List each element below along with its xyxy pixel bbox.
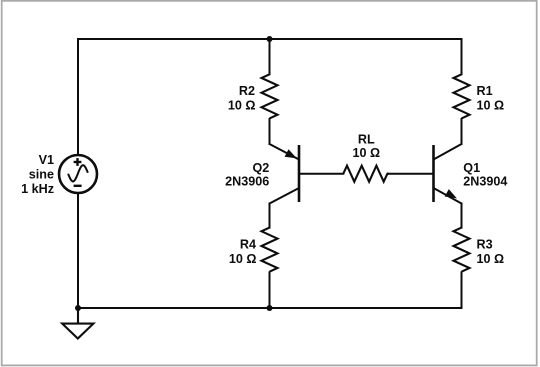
- resistor R1: [454, 74, 470, 118]
- svg-text:10 Ω: 10 Ω: [477, 99, 505, 113]
- resistor R4: [262, 228, 278, 272]
- node junction top rail / R2: [267, 36, 273, 42]
- svg-text:sine: sine: [29, 167, 54, 181]
- label Q2 part number: [225, 161, 269, 188]
- label RL value: [352, 132, 380, 160]
- transistor Q2 emitter arrow: [285, 149, 297, 158]
- ground: [62, 308, 93, 339]
- transistor Q1: [434, 144, 462, 204]
- svg-text:Q2: Q2: [252, 161, 269, 175]
- wire R2 bottom to Q2 emitter: [269, 119, 271, 144]
- svg-text:10 Ω: 10 Ω: [229, 252, 257, 266]
- svg-text:R3: R3: [477, 237, 493, 251]
- svg-text:10 Ω: 10 Ω: [477, 252, 505, 266]
- resistor R3: [454, 228, 470, 272]
- node junction bottom rail / R4: [267, 305, 273, 311]
- wire Q2 collector to R4: [269, 204, 271, 228]
- resistor R2: [262, 74, 278, 118]
- wire R2 branch from top rail: [269, 39, 271, 74]
- svg-text:1 kHz: 1 kHz: [21, 182, 54, 196]
- wire R1 bottom to Q1 collector: [461, 119, 463, 144]
- node junction bottom rail / ground: [75, 305, 81, 311]
- label R2 value: [228, 84, 256, 113]
- wire R4 bottom to bottom rail: [269, 272, 271, 308]
- label Q1 part number: [463, 161, 507, 189]
- svg-text:10 Ω: 10 Ω: [352, 146, 380, 160]
- svg-text:2N3906: 2N3906: [225, 175, 269, 189]
- wire RL to Q1 base: [389, 173, 434, 175]
- wire Q1 emitter to R3: [461, 204, 463, 228]
- transistor Q1 emitter arrow: [445, 189, 457, 198]
- svg-text:Q1: Q1: [463, 161, 480, 175]
- svg-text:R2: R2: [239, 84, 255, 98]
- wire V1 bottom to bottom rail: [77, 193, 79, 308]
- wire top rail drop to R1: [461, 39, 463, 74]
- wire R3 bottom to bottom rail: [461, 272, 463, 308]
- svg-text:V1: V1: [39, 153, 54, 167]
- wire top rail: [78, 39, 462, 155]
- svg-text:RL: RL: [358, 132, 375, 146]
- svg-text:R1: R1: [477, 84, 493, 98]
- voltage source V1: [59, 155, 97, 193]
- label R3 value: [477, 237, 505, 266]
- resistor RL: [343, 166, 389, 182]
- label R1 value: [477, 84, 505, 113]
- label V1 sine 1 kHz: [21, 153, 54, 196]
- wire Q2 base to RL: [299, 173, 343, 175]
- svg-text:10 Ω: 10 Ω: [228, 99, 256, 113]
- wire bottom rail: [78, 307, 462, 309]
- label R4 value: [229, 237, 257, 266]
- svg-text:R4: R4: [240, 237, 256, 251]
- svg-text:2N3904: 2N3904: [463, 175, 507, 189]
- transistor Q2: [270, 144, 300, 204]
